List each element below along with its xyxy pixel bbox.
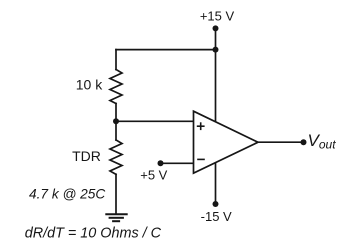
wire R1 bottom lead to node A bbox=[115, 104, 117, 122]
node dot +15V terminal bbox=[213, 25, 219, 31]
ground bbox=[105, 214, 127, 221]
svg-text:4.7 k @ 25C: 4.7 k @ 25C bbox=[29, 186, 105, 201]
thermistor TDR bbox=[110, 140, 122, 174]
svg-text:dR/dT = 10 Ohms / C: dR/dT = 10 Ohms / C bbox=[25, 225, 162, 241]
node dot Vout terminal bbox=[301, 139, 307, 145]
wire top horizontal junction to R1 top bbox=[116, 49, 216, 51]
wire TDR bottom lead to ground bbox=[115, 174, 117, 214]
wire V- supply from op-amp bottom bbox=[215, 160, 217, 204]
svg-text:+15 V: +15 V bbox=[200, 9, 235, 24]
wire +15V terminal to junction bbox=[215, 28, 217, 49]
wire TDR top lead bbox=[115, 121, 117, 140]
op-amp U1 bbox=[194, 111, 259, 173]
node dot junction of supply and R1 bbox=[213, 47, 219, 53]
wire +5V terminal to op-amp inverting input bbox=[161, 162, 195, 164]
svg-text:10 k: 10 k bbox=[76, 77, 103, 93]
op-amp plus input symbol bbox=[197, 122, 205, 130]
op-amp minus input symbol bbox=[197, 158, 205, 160]
svg-text:+5 V: +5 V bbox=[140, 168, 167, 183]
resistor R1 10 k bbox=[110, 70, 122, 104]
svg-text:-15 V: -15 V bbox=[201, 209, 232, 224]
wire V+ supply into op-amp top bbox=[215, 50, 217, 124]
wire node A to op-amp noninverting input bbox=[116, 120, 194, 122]
wire op-amp output bbox=[258, 141, 304, 143]
wire R1 top lead bbox=[115, 50, 117, 70]
node dot +5V terminal bbox=[158, 160, 164, 166]
node A dot R1/TDR junction bbox=[113, 118, 119, 124]
svg-text:TDR: TDR bbox=[72, 148, 101, 164]
node dot -15V terminal bbox=[213, 201, 219, 207]
